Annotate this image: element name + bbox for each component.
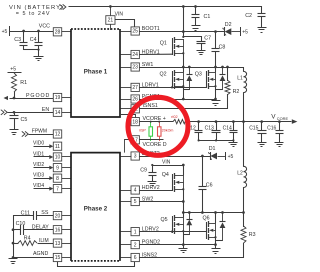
VIN input chevron: [60, 4, 66, 9]
node Phase 2 label: [84, 205, 108, 212]
capacitor C13: [205, 121, 221, 141]
node BOOT2 label: [142, 151, 160, 157]
ground under C5: [10, 130, 19, 135]
transistor Q5: [161, 215, 185, 234]
svg-text:= 5 to 24V: = 5 to 24V: [16, 11, 51, 17]
svg-text:C9: C9: [140, 167, 147, 173]
wire VCORE+: [140, 121, 174, 123]
svg-text:1: 1: [134, 229, 137, 235]
svg-text:R1: R1: [20, 80, 27, 86]
wire C10 to DELAY pin: [24, 229, 54, 231]
ground under C15: [258, 143, 267, 147]
pin 10 (VID1): [53, 153, 71, 161]
resistor R4: [18, 235, 37, 245]
diode D1: [208, 146, 225, 160]
node VID0 label: [33, 141, 44, 147]
wire PGOOD: [10, 98, 54, 100]
wire EN: [8, 112, 54, 114]
wire HDRV1 to Q1 gate: [139, 53, 172, 55]
capacitor C6: [199, 156, 213, 213]
node +5 terminal (VCC): [2, 26, 10, 36]
wire left rail to C11: [14, 215, 34, 217]
wire VID3 with arrow: [34, 176, 54, 180]
wire VIN to Q4 drain: [151, 164, 184, 167]
pin 12 (FPWM): [53, 130, 61, 138]
capacitor C14: [223, 121, 238, 141]
node junction dot rail / L: [242, 120, 245, 123]
svg-text:26: 26: [132, 97, 138, 103]
node junction dot BOOT1 / VIN branch: [182, 30, 185, 33]
node junction dot VIN rail / Q1 branch: [182, 5, 185, 8]
svg-text:C6: C6: [206, 182, 213, 188]
svg-text:C8: C8: [219, 44, 226, 50]
capacitor C12: [187, 121, 203, 141]
wire VIN rail to Q1 drain: [183, 6, 185, 37]
wire Q6 source junction: [216, 237, 223, 245]
wire Q2 source junction: [184, 86, 190, 100]
wire AGND: [12, 256, 54, 259]
svg-text:C1: C1: [204, 14, 211, 20]
svg-text:16: 16: [55, 227, 61, 233]
wire LDRV1: [140, 86, 207, 88]
svg-text:VIN: VIN: [115, 12, 124, 18]
transistor Q1: [160, 37, 185, 56]
node junction dot SW2 bus / D-Q5: [188, 211, 191, 214]
ground left rail: [9, 259, 18, 264]
svg-text:10: 10: [55, 155, 61, 161]
wire R2 to ISNS1: [227, 94, 229, 109]
node junction dot PGOOD / R1: [13, 97, 16, 100]
node +5 terminal (D1): [226, 152, 234, 160]
node junction dot SW2 bus / Q6 drain: [214, 211, 217, 214]
resistor 20kOm (red, inserted): [158, 121, 162, 141]
pin 24 (HDRV1): [121, 50, 140, 58]
svg-text:D2: D2: [225, 22, 232, 28]
svg-text:23: 23: [132, 65, 138, 71]
wire Q6 drain to SW2 bus: [215, 213, 217, 224]
node AGND label: [33, 251, 48, 257]
pin 26 (PGND1): [121, 95, 140, 103]
svg-text:CORE: CORE: [277, 116, 289, 121]
svg-text:C3: C3: [14, 37, 21, 43]
svg-text:Q6: Q6: [203, 215, 210, 221]
wire SW2 pin to Q4 source: [140, 201, 184, 203]
pin 27 (LDRV1): [121, 83, 140, 91]
node ISNS2 label: [142, 252, 157, 258]
node junction dot rail / C16: [278, 120, 281, 123]
node junction dot rail / C12: [197, 120, 200, 123]
capacitor C7: [197, 36, 212, 52]
node +5 terminal (R1): [8, 67, 22, 73]
svg-text:+5: +5: [2, 29, 8, 35]
transistor Q2: [160, 70, 185, 89]
node FPWM label: [32, 128, 47, 134]
node VIN voltage note: [16, 11, 51, 17]
wire BOOT1: [140, 31, 225, 33]
diode Q2 body diode: [186, 67, 192, 90]
node VID1 label: [33, 151, 44, 157]
ground under Q3: [212, 89, 221, 106]
diode Q6 body diode: [220, 212, 226, 241]
node ILIM label: [39, 238, 49, 244]
svg-text:20kOm: 20kOm: [162, 129, 174, 133]
svg-text:+5: +5: [10, 67, 16, 73]
pin 15 (AGND): [53, 253, 71, 261]
node junction dot SW2 bus / D-Q6: [221, 211, 224, 214]
svg-text:PGOOD: PGOOD: [26, 93, 50, 99]
node junction dot rail / C15: [260, 120, 263, 123]
node EN label: [42, 107, 50, 113]
pin 5 (SW2): [121, 197, 140, 205]
node junction dot EN / C5: [13, 111, 16, 114]
svg-text:12: 12: [55, 132, 61, 138]
svg-text:Phase 1: Phase 1: [84, 69, 108, 76]
pin 3 (BOOT2): [121, 152, 140, 160]
pin 22 (ISNS1): [121, 105, 140, 113]
capacitor C15: [249, 121, 266, 143]
capacitor C8: [212, 31, 226, 68]
svg-text:riSP: riSP: [139, 129, 146, 133]
svg-text:21: 21: [108, 18, 114, 24]
capacitor C1: [192, 6, 211, 26]
resistor ri02 (sense): [171, 115, 188, 124]
wire R1 to PGOOD: [14, 92, 16, 99]
FPWM input chevron: [22, 131, 28, 136]
wire R3 top: [243, 212, 245, 227]
pin 19 (PGOOD): [53, 93, 71, 101]
wire VID0 with arrow: [34, 144, 54, 148]
capacitor C3: [14, 31, 27, 50]
pin 16 (DELAY): [53, 226, 71, 234]
pin 2 (PGND2): [121, 241, 140, 249]
wire Q5 drain to SW2 bus: [183, 213, 185, 218]
wire R3 to ISNS2: [139, 243, 243, 258]
node 20kOm label: [162, 129, 174, 133]
node +5 terminal (D2): [241, 27, 249, 36]
node junction dot VCC / C4: [37, 30, 40, 33]
wire Q4 drain to VIN node: [183, 166, 185, 176]
PGOOD output arrow: [4, 96, 9, 100]
wire output cap ground bus: [198, 139, 235, 141]
pin 6 (ISNS2): [121, 253, 140, 261]
node HDRV2 label: [142, 185, 160, 191]
node VID2 label: [33, 162, 44, 168]
inductor L2: [237, 122, 246, 213]
node SW2 label: [142, 196, 154, 202]
node junction dot VCC / C3: [22, 30, 25, 33]
node SW1 label: [142, 62, 154, 68]
svg-text:15: 15: [55, 255, 61, 261]
ground output bus: [229, 140, 238, 147]
node junction dot BOOT1 / C8: [214, 30, 217, 33]
svg-text:ri02: ri02: [171, 115, 177, 119]
svg-text:6: 6: [134, 255, 137, 261]
svg-text:L2: L2: [237, 171, 243, 177]
capacitor C5: [10, 112, 28, 130]
node junction dot SW1 / C8 and Q3 drain: [214, 66, 217, 69]
wire VID2 with arrow: [34, 166, 54, 170]
wire VCORE output rail: [189, 121, 292, 123]
svg-text:R3: R3: [249, 232, 256, 238]
node PGND1 label: [142, 94, 160, 100]
VCORE output arrow: [292, 119, 298, 124]
wire ISNS1: [140, 108, 228, 110]
pin 20 (SS): [53, 212, 71, 220]
diode Q5 body diode: [186, 212, 192, 235]
node SS label: [41, 210, 49, 216]
resistor R3: [241, 226, 256, 243]
wire VIN top rail: [69, 6, 262, 8]
inductor L1: [237, 67, 246, 122]
node junction dot SW1 / Q1 source: [182, 66, 185, 69]
ground under Q6: [212, 244, 221, 254]
wire BOOT2: [140, 156, 211, 158]
wire VID4 with arrow: [34, 187, 54, 191]
wire Q3 source junction: [216, 86, 223, 90]
node VCC label: [39, 24, 50, 30]
pin 21 (VIN): [106, 6, 124, 30]
svg-text:19: 19: [55, 95, 61, 101]
wire Q5 source junction: [184, 231, 190, 245]
node DELAY label: [32, 224, 49, 230]
transistor Q4: [162, 172, 185, 192]
node V CORE label: [271, 114, 288, 121]
svg-text:4: 4: [134, 188, 137, 194]
ground under C7: [197, 51, 206, 55]
diode D2: [223, 22, 241, 36]
svg-text:14: 14: [55, 110, 61, 116]
wire Q3 drain to SW1: [215, 68, 217, 73]
svg-text:VID3: VID3: [33, 173, 44, 179]
svg-text:18: 18: [132, 119, 138, 125]
pin 28 (VCC): [53, 28, 71, 36]
wire C3-C4 bottoms: [24, 49, 40, 51]
node VCORE + label: [143, 116, 166, 122]
capacitor C4: [30, 31, 43, 50]
svg-text:R2: R2: [233, 89, 240, 95]
EN input chevron: [1, 110, 7, 115]
svg-text:Q3: Q3: [195, 72, 202, 78]
pin 1 (LDRV2): [121, 228, 140, 236]
resistor riSP (green, inserted): [149, 121, 153, 141]
svg-text:13: 13: [55, 241, 61, 247]
transistor Q3: [195, 70, 217, 89]
pin 11 (VID0): [53, 142, 61, 150]
svg-text:Q4: Q4: [162, 172, 169, 178]
ground under C1: [192, 26, 201, 31]
wire left rail: [13, 215, 15, 259]
svg-text:28: 28: [55, 30, 61, 36]
capacitor C16: [267, 121, 283, 143]
pin 8 (VID3): [53, 174, 71, 182]
node junction dot SW1 / D-Q2: [188, 66, 191, 69]
svg-text:Q1: Q1: [160, 41, 167, 47]
wire FPWM: [29, 134, 54, 136]
wire Q4 source down to SW2 bus: [182, 189, 185, 213]
svg-text:C2: C2: [245, 13, 252, 19]
svg-text:VID0: VID0: [33, 141, 44, 147]
node ISNS1 label: [143, 103, 158, 109]
capacitor C10: [16, 221, 26, 235]
ground under C9: [148, 182, 157, 186]
resistor R1: [12, 73, 28, 92]
wire C11 to SS pin: [37, 215, 54, 217]
pin 17 (VCORE D): [125, 136, 140, 153]
svg-text:2: 2: [134, 242, 137, 248]
capacitor C2: [245, 6, 265, 28]
svg-text:5: 5: [134, 199, 137, 205]
wire VID1 with arrow: [34, 155, 54, 159]
svg-text:9: 9: [56, 165, 59, 171]
wire VCORE D: [140, 139, 164, 141]
node VID4 label: [33, 183, 44, 189]
svg-text:11: 11: [55, 144, 60, 150]
pin 25 (BOOT1): [121, 27, 140, 35]
wire SW2 bus: [184, 212, 244, 214]
node junction dot VIN rail / pin 21: [109, 5, 112, 8]
wire pin21 to pin25: [115, 20, 135, 27]
node VID3 label: [33, 173, 44, 179]
svg-text:ILIM: ILIM: [39, 238, 49, 244]
svg-text:8: 8: [56, 176, 59, 182]
ground under Q5 source: [179, 244, 188, 253]
transistor Q6: [203, 215, 217, 240]
ground under C16: [275, 143, 284, 147]
svg-text:Phase 2: Phase 2: [84, 205, 108, 212]
node BOOT1 label: [142, 26, 160, 32]
ground under C4: [34, 49, 44, 61]
node junction dot SW2 bus / Q4-Q5: [182, 211, 185, 214]
wire left rail to R4: [12, 242, 19, 245]
wire R4 to ILIM pin: [38, 243, 54, 245]
node LDRV2 label: [142, 227, 159, 233]
wire VCC: [10, 31, 54, 33]
highlight circle (red annotation): [128, 97, 188, 155]
svg-text:VIN: VIN: [162, 160, 171, 166]
IC Phase 2 box: [71, 153, 120, 261]
pin 4 (HDRV2): [121, 186, 140, 194]
node HDRV1 label: [142, 49, 160, 55]
svg-text:C4: C4: [30, 37, 37, 43]
svg-text:L1: L1: [237, 76, 243, 82]
pin 9 (VID2): [53, 164, 71, 172]
svg-text:3: 3: [134, 154, 137, 160]
svg-text:7: 7: [56, 186, 59, 192]
capacitor C9: [140, 165, 156, 182]
wire PGND1: [140, 98, 217, 101]
svg-text:VIN (BATTERY): VIN (BATTERY): [9, 5, 64, 11]
svg-text:+5: +5: [242, 30, 248, 36]
ground under C2: [258, 28, 267, 33]
node junction dot BOOT2 / C6: [201, 155, 204, 158]
node PGOOD label: [26, 93, 50, 99]
wire AGND to ISNS2 bottom link: [58, 262, 135, 267]
capacitor C11: [21, 210, 37, 220]
node riSP label: [139, 129, 146, 133]
svg-text:C5: C5: [21, 117, 28, 123]
svg-text:+5: +5: [228, 154, 234, 160]
wire left rail to C10: [12, 228, 21, 231]
svg-text:V: V: [271, 114, 276, 121]
svg-text:AGND: AGND: [33, 251, 48, 257]
svg-text:Q2: Q2: [160, 72, 167, 78]
node junction dot SW1 / R2: [226, 66, 229, 69]
wire SW1: [140, 67, 244, 69]
wire HDRV2 to Q4 gate: [140, 190, 173, 192]
node VIN label (phase 2): [162, 160, 171, 166]
wire LDRV2: [140, 231, 207, 233]
pin 13 (ILIM): [53, 239, 71, 247]
node junction dot SW1 / D-Q3: [221, 66, 224, 69]
node junction dot SW2 bus / C6: [201, 211, 204, 214]
pin 23 (SW1): [121, 63, 140, 71]
wire Q2 drain to SW1: [183, 68, 185, 73]
pin 14 (EN): [53, 108, 71, 116]
svg-text:C7: C7: [204, 36, 211, 42]
node VCORE D label: [143, 142, 167, 148]
node junction dot rail / C13: [215, 120, 218, 123]
wire Q1 drain node to C7: [182, 36, 201, 38]
svg-text:C16: C16: [267, 125, 276, 131]
node junction dot SW2 bus / L2-R3: [242, 211, 245, 214]
diode Q3 body diode: [220, 67, 226, 90]
node PGND2 label: [142, 240, 160, 246]
svg-text:C15: C15: [249, 125, 258, 131]
svg-text:24: 24: [132, 52, 138, 58]
svg-text:FPWM: FPWM: [32, 128, 47, 134]
wire Q1 source to SW1: [183, 53, 185, 68]
IC Phase 1 box: [71, 29, 120, 117]
svg-text:VCC: VCC: [39, 24, 50, 30]
node junction dot rail / C14: [232, 120, 235, 123]
wire PGND2: [140, 243, 217, 246]
pin 18 (VCORE+): [120, 115, 139, 126]
node junction dot VIN rail / C1: [194, 5, 197, 8]
svg-text:EN: EN: [42, 107, 50, 113]
svg-text:Q5: Q5: [161, 217, 168, 223]
node LDRV1 label: [142, 82, 159, 88]
svg-text:D1: D1: [209, 146, 216, 152]
svg-text:20: 20: [55, 213, 61, 219]
node Phase 1 label: [84, 69, 108, 76]
svg-text:27: 27: [132, 85, 138, 91]
svg-text:25: 25: [132, 29, 138, 35]
svg-text:VCORE D: VCORE D: [143, 142, 167, 148]
resistor R2: [225, 67, 239, 95]
node VIN (BATTERY) input label: [9, 5, 64, 11]
pin 7 (VID4): [53, 185, 71, 193]
